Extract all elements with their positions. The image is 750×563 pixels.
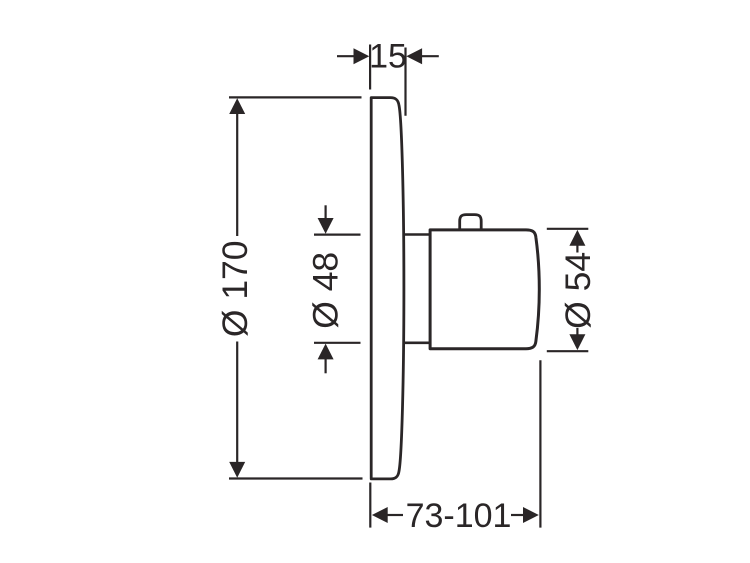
dim 73-101: right extension line: [539, 360, 541, 527]
dim 73-101: left extension line: [369, 483, 371, 528]
dim Ø170: dimension line lower segment: [236, 342, 238, 464]
dim Ø170: dimension line upper segment: [236, 112, 238, 236]
dim Ø54: top extension line: [547, 228, 589, 230]
svg-text:Ø 170: Ø 170: [215, 240, 255, 337]
dim 73-101: right arrow: [523, 507, 539, 523]
dim 73-101: right tail line: [511, 514, 524, 516]
dim 15: left tail line: [337, 55, 355, 57]
dim Ø54: bottom arrow: [569, 334, 585, 350]
dim 73-101: left arrow: [372, 507, 388, 523]
handle body (knob, side view): [430, 230, 539, 349]
neck top line: [403, 233, 430, 236]
dim Ø54: bottom extension line: [547, 350, 589, 352]
svg-text:Ø 48: Ø 48: [305, 252, 345, 329]
dim Ø54: top arrow: [569, 230, 585, 246]
dim Ø170: bottom extension line: [229, 477, 363, 479]
dim Ø48: bottom arrow tail: [325, 358, 327, 373]
dim 15: right arrow: [406, 48, 422, 64]
wall plate (escutcheon, side view): [371, 98, 404, 479]
dim 15: right tail line: [421, 55, 439, 57]
dim 15: left extension line: [369, 45, 371, 90]
dim Ø54: lower segment: [576, 328, 578, 336]
dim Ø48: top arrow tail: [325, 205, 327, 220]
svg-text:15: 15: [369, 38, 407, 76]
dim Ø48: top arrow: [318, 218, 334, 234]
dim Ø48: top extension line: [314, 234, 361, 236]
dim Ø48: bottom extension line: [314, 342, 361, 344]
dim 73-101: left tail line: [387, 514, 403, 516]
handle grip bump: [460, 215, 482, 230]
dim Ø48: bottom arrow: [318, 344, 334, 360]
dim Ø54: upper segment: [576, 244, 578, 253]
dim Ø170: bottom arrow: [229, 462, 245, 478]
dim Ø170: top arrow: [229, 98, 245, 114]
dim Ø170: top extension line: [229, 96, 362, 98]
dim 15: right extension line: [404, 48, 406, 116]
neck bottom line: [403, 341, 430, 344]
svg-text:73-101: 73-101: [406, 497, 512, 535]
dim 15: left arrow: [354, 48, 370, 64]
svg-text:Ø 54: Ø 54: [558, 252, 598, 329]
